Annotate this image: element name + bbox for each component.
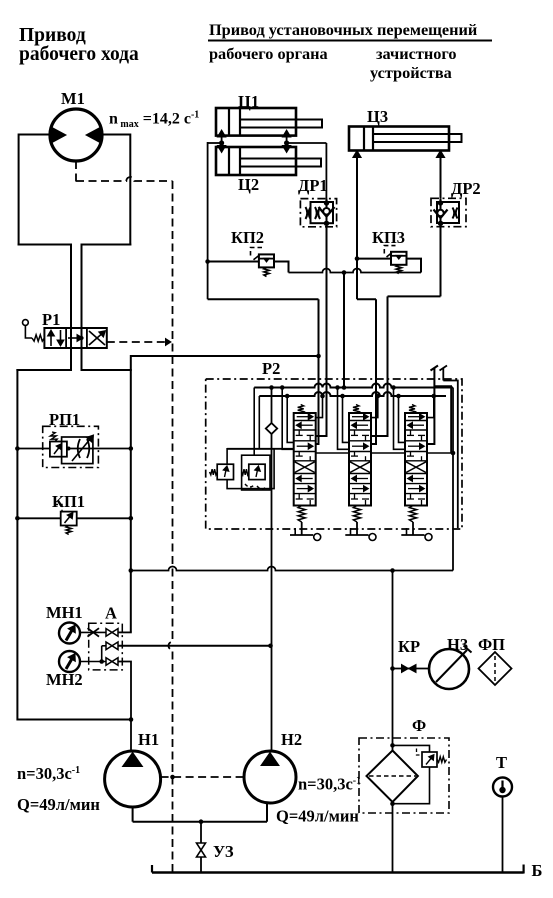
stack 2 return spring bbox=[353, 506, 360, 523]
stack 3 lower cells bbox=[411, 478, 425, 480]
ДР1 inner box bbox=[311, 202, 334, 223]
КП1 spring below bbox=[66, 526, 71, 535]
valve P1 body bbox=[44, 328, 106, 348]
svg-text:n max =14,2 с-1: n max =14,2 с-1 bbox=[109, 110, 199, 131]
wire Н1 bottom bbox=[132, 807, 134, 822]
cylinder Ц3 rod bbox=[373, 134, 462, 142]
wire middle valve output to Н2 line bbox=[118, 645, 271, 647]
svg-text:КП2: КП2 bbox=[231, 228, 264, 247]
wire МН2 to block bbox=[80, 661, 106, 663]
hand pump Н3 bbox=[429, 649, 469, 689]
Р2 relief enclosure boxes bbox=[227, 449, 274, 489]
svg-text:М1: М1 bbox=[61, 89, 85, 108]
wire branch to КР bbox=[393, 668, 430, 670]
svg-text:n=30,3с-1: n=30,3с-1 bbox=[17, 764, 80, 783]
wire Р2 drain to filter vertical bbox=[392, 571, 394, 751]
hydraulic motor M1 bbox=[50, 109, 102, 161]
closed port X bbox=[88, 628, 100, 636]
drain dashed horizontal with hop bbox=[76, 177, 173, 181]
КП3 spring below bbox=[396, 265, 401, 274]
svg-text:А: А bbox=[105, 604, 117, 623]
ДР1 check valve bbox=[326, 199, 328, 227]
stack 2 cell symbols bbox=[352, 416, 365, 418]
wire КП3 left to Ц3 line bbox=[357, 258, 391, 260]
cylinder Ц2 rod bbox=[240, 159, 321, 167]
bypass wire bottom bbox=[393, 767, 430, 804]
svg-text:ДР2: ДР2 bbox=[451, 179, 481, 198]
wire diamond down to relief gallery bbox=[271, 434, 273, 449]
check valve diamond in Р2 bbox=[269, 385, 274, 390]
Р2 relief drain curves bbox=[245, 484, 255, 487]
wire common relief line with hops bbox=[289, 269, 422, 273]
P1 lever handle bbox=[23, 320, 29, 326]
svg-text:Ц2: Ц2 bbox=[238, 175, 259, 194]
wire КП2 line from rail bbox=[205, 259, 210, 264]
cylinder Ц1 rod bbox=[240, 120, 322, 128]
wire M1 right port bbox=[102, 134, 130, 136]
svg-text:зачистного: зачистного bbox=[376, 44, 456, 63]
svg-text:устройства: устройства bbox=[370, 63, 452, 82]
bypass valve square bbox=[422, 752, 437, 767]
svg-text:Б: Б bbox=[532, 861, 543, 880]
wire P1 bottom-left to left rail bbox=[16, 369, 71, 371]
pressure gauge МН1 bbox=[59, 623, 80, 644]
wire cyl left rail bbox=[208, 142, 222, 144]
ДР2 throttle arcs bbox=[453, 208, 455, 219]
P1 cell1 arrows bbox=[50, 332, 52, 346]
wire bottom link with hops bbox=[131, 567, 453, 571]
cylinder Ц3 body bbox=[349, 127, 449, 151]
wire P1 bottom-right to right rail bbox=[82, 369, 132, 371]
wire ДР1 down into Р2, stub into stack 1 bbox=[316, 227, 327, 436]
cylinder Ц1 body bbox=[216, 108, 296, 136]
bypass wire top bbox=[390, 743, 395, 748]
check valve КР bbox=[402, 665, 409, 673]
wire Р2 to pump Н2 long vertical bbox=[271, 449, 273, 752]
stack 1 roller lever bbox=[301, 522, 303, 535]
wire УЗ to tank bbox=[200, 857, 202, 873]
wire КП1 line bbox=[17, 517, 130, 519]
svg-text:Привод: Привод bbox=[19, 25, 86, 46]
wire КП3 output jog bbox=[407, 259, 422, 273]
pressure gauge МН2 bbox=[59, 651, 80, 672]
wire elbow left to P1 left line bbox=[18, 244, 71, 246]
wire МН1 to block bbox=[80, 631, 106, 633]
block A bottom valve bbox=[106, 658, 112, 666]
wire Ц3 right port down bbox=[440, 153, 442, 198]
ДР1 enclosure dash-dot bbox=[300, 199, 336, 227]
Р2 manifold line 1 bbox=[254, 384, 453, 388]
wire left drop bbox=[18, 134, 20, 246]
wire bottom manifold bbox=[133, 821, 267, 823]
Р2 plugged port 2 bbox=[442, 368, 444, 381]
Ц3 right port arrow bbox=[440, 151, 442, 158]
svg-text:Р1: Р1 bbox=[42, 310, 60, 329]
svg-text:МН1: МН1 bbox=[46, 603, 83, 622]
КП3 valve square bbox=[391, 252, 407, 265]
svg-text:Q=49л/мин: Q=49л/мин bbox=[17, 795, 100, 814]
svg-text:рабочего органа: рабочего органа bbox=[209, 44, 328, 63]
port arrows left between Ц1 Ц2 bbox=[221, 134, 223, 149]
Р2 directional valve stack 1 body bbox=[294, 413, 316, 506]
wire branch up to middle valve bbox=[101, 646, 103, 662]
pump Н1 bbox=[105, 751, 161, 807]
wire Т to tank bbox=[502, 797, 504, 873]
stack 3 return spring bbox=[409, 506, 416, 523]
block A middle valve bbox=[106, 642, 112, 650]
РП1 spring top bbox=[50, 432, 57, 442]
wire right port to ДР1 bbox=[287, 142, 327, 144]
pump Н2 bbox=[244, 751, 296, 803]
svg-text:ФП: ФП bbox=[478, 635, 505, 654]
КП2 valve square bbox=[259, 254, 274, 267]
stack 2 roller lever bbox=[356, 522, 358, 535]
wire jog to Р2, stub into stack 2 bbox=[357, 298, 376, 300]
stack 1 crossed cell bbox=[295, 462, 315, 473]
wire elbow right to P1 right line bbox=[81, 244, 132, 246]
svg-text:МН2: МН2 bbox=[46, 670, 83, 689]
P1 cell3 crossed arrows bbox=[89, 331, 105, 345]
РП1 reducer square bbox=[50, 442, 67, 457]
wire left rail bottom elbow bbox=[17, 719, 131, 721]
stack 1 return spring bbox=[298, 506, 305, 523]
P1 cell2 horizontal arrow bbox=[68, 337, 80, 339]
filter Ф enclosure dash-dot bbox=[359, 738, 449, 813]
svg-text:КР: КР bbox=[398, 637, 420, 656]
bypass spring bbox=[437, 757, 447, 763]
ДР1 throttle arcs bbox=[306, 207, 308, 219]
cylinder Ц2 body bbox=[216, 147, 296, 175]
wire right rail top to P2 feed line bbox=[131, 355, 319, 357]
wire filter output to tank bbox=[392, 802, 394, 873]
svg-text:Ц3: Ц3 bbox=[367, 107, 388, 126]
filter element diamond bbox=[367, 751, 418, 802]
Р2 stack 1 loop wires bbox=[280, 385, 285, 390]
Р2 directional valve stack 3 body bbox=[405, 413, 427, 506]
stack 3 roller lever bbox=[412, 522, 414, 535]
right rail bbox=[130, 355, 132, 632]
Р2 gallery segments between stacks bbox=[316, 452, 349, 454]
Р2 gallery line bbox=[227, 448, 294, 450]
block A top valve bbox=[106, 629, 112, 637]
wire Н2 bottom bbox=[266, 802, 268, 822]
Р2 stack 1 top spring bbox=[298, 405, 304, 414]
РП1 enclosure dash-dot bbox=[43, 426, 99, 467]
svg-text:КП1: КП1 bbox=[52, 492, 85, 511]
shutoff valve УЗ bbox=[197, 843, 206, 850]
svg-text:Н1: Н1 bbox=[138, 730, 159, 749]
stack 2 crossed cell bbox=[350, 462, 370, 473]
svg-text:ДР1: ДР1 bbox=[298, 176, 328, 195]
stack 3 cell symbols bbox=[408, 416, 421, 418]
drain dashed from M1 bottom bbox=[75, 161, 77, 182]
stack 3 crossed cell bbox=[406, 462, 426, 473]
Р2 stack 3 top spring bbox=[409, 405, 415, 414]
РП1 adjustable throttle bbox=[78, 439, 80, 458]
wire branch down to Р2 centre bbox=[343, 273, 345, 388]
wire bottom valve down to pump Н1 bbox=[118, 662, 131, 752]
КП2 spring below bbox=[264, 267, 269, 276]
КП1 valve square bbox=[61, 512, 77, 526]
port arrows right between Ц1 Ц2 bbox=[286, 134, 288, 149]
svg-text:КП3: КП3 bbox=[372, 228, 405, 247]
wire ДР2 down bbox=[440, 227, 442, 297]
КП3 pilot bracket dashed bbox=[384, 246, 395, 254]
wire port2 elbow to right loop bbox=[443, 381, 458, 529]
ДР2 enclosure dash-dot bbox=[431, 198, 466, 226]
Р2 stack 3 loop wires bbox=[391, 385, 396, 390]
wire РП1 line bbox=[17, 448, 130, 450]
svg-text:рабочего хода: рабочего хода bbox=[19, 44, 139, 65]
svg-text:Т: Т bbox=[496, 753, 507, 772]
drain dashed vertical long bbox=[169, 181, 173, 873]
wire top valve to rail bbox=[118, 631, 132, 633]
Р2 relief valve 1 bbox=[217, 464, 233, 479]
stack 2 lower cells bbox=[355, 478, 369, 480]
ДР2 check valve bbox=[440, 198, 442, 226]
P1 spring bbox=[32, 335, 44, 341]
КП1 pilot bracket dashed bbox=[54, 505, 62, 512]
svg-text:n=30,3с-1: n=30,3с-1 bbox=[298, 775, 361, 794]
svg-text:Р2: Р2 bbox=[262, 359, 280, 378]
Р2 enclosure dash-dot bbox=[206, 379, 462, 529]
wire Ц3 left port down bbox=[356, 153, 358, 299]
wire right drop bbox=[129, 134, 131, 246]
Р2 left feed verticals bbox=[253, 388, 255, 456]
wire M1 left port bbox=[19, 134, 50, 136]
breather filter ФП bbox=[479, 652, 512, 685]
Р2 plugged port 1, stub into stack 3 bbox=[427, 368, 434, 444]
svg-text:УЗ: УЗ bbox=[213, 842, 234, 861]
stack 1 cell symbols bbox=[297, 416, 310, 418]
block А enclosure dash-dot bbox=[89, 623, 123, 670]
left rail down bbox=[16, 369, 18, 721]
svg-text:Н2: Н2 bbox=[281, 730, 302, 749]
Ц3 left port arrow bbox=[356, 151, 358, 158]
P1 pilot dashed line to drain line bbox=[107, 341, 165, 343]
Р2 manifold line 2 bbox=[259, 392, 446, 396]
wire elbow to inner loop bbox=[434, 386, 451, 453]
tank line Б bbox=[152, 871, 524, 874]
shaft dashed link between pumps bbox=[161, 776, 244, 778]
wire УЗ drop bbox=[200, 822, 202, 843]
wire cyl rail jog into Р2, stub into stack 1 bbox=[208, 298, 319, 300]
wire КП2 right jog bbox=[274, 262, 289, 273]
Р2 relief valve 2 bbox=[249, 464, 265, 479]
stack 1 lower cells bbox=[299, 478, 313, 480]
bypass pilot dashed bbox=[417, 749, 423, 756]
thermometer Т bbox=[493, 778, 512, 797]
svg-text:Привод установочных перемещени: Привод установочных перемещений bbox=[209, 20, 477, 39]
РП1 inner box bbox=[62, 437, 93, 464]
Р2 right loop down bbox=[452, 388, 454, 571]
wire jog to Р2, stub into stack 2 right bbox=[388, 295, 441, 297]
Р2 stack 2 loop wires bbox=[335, 385, 340, 390]
Р2 stack 2 top spring bbox=[353, 405, 359, 414]
Р2 directional valve stack 2 body bbox=[349, 413, 371, 506]
КП2 pilot bracket dashed bbox=[251, 248, 264, 256]
svg-text:Q=49л/мин: Q=49л/мин bbox=[276, 807, 359, 826]
svg-text:Ф: Ф bbox=[412, 716, 426, 735]
ДР2 inner box bbox=[437, 202, 459, 223]
